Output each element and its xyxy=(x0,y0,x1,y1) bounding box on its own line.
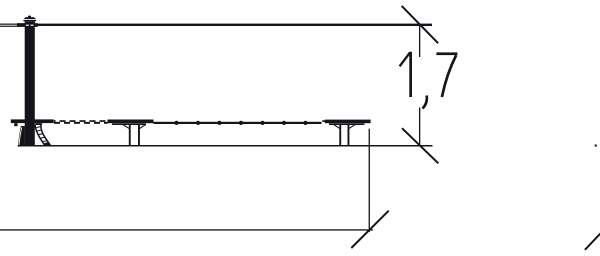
post cap rim xyxy=(23,20,36,21)
post collar xyxy=(26,21,36,23)
post cap dome xyxy=(24,17,36,19)
deck dashed double row between planks 1 and 2 xyxy=(54,120,108,124)
handrail clamp at post xyxy=(17,23,38,27)
handrail double line left of post xyxy=(0,24,18,27)
dimension vertical line upper segment xyxy=(419,24,420,58)
deck dotted surface line xyxy=(154,122,322,124)
dimension vertical line lower segment xyxy=(419,108,420,147)
pedestal connector under plank1 xyxy=(35,123,42,125)
dimension text 1,7 : digit 1 xyxy=(400,52,412,97)
plank1 left small foot xyxy=(14,123,17,126)
pedestal right leg foot xyxy=(44,142,50,145)
dimension tick top xyxy=(402,6,438,43)
dimension tick middle xyxy=(402,128,438,163)
bracket 3 braces xyxy=(333,124,355,128)
cap separator white line xyxy=(25,18,35,21)
dimension text comma xyxy=(423,96,427,109)
bracket 2 braces xyxy=(123,124,146,128)
bracket 3 horizontal xyxy=(329,123,365,125)
post P1 xyxy=(25,22,35,146)
bracket 2 left leg xyxy=(129,125,131,146)
deck plank bar 1 xyxy=(11,119,54,123)
bottom-right partial tick xyxy=(585,232,600,250)
bracket 2 horizontal xyxy=(112,123,146,125)
pedestal right leg curved band xyxy=(35,125,50,146)
bracket 3 right leg xyxy=(348,125,350,146)
screw dots on surface line xyxy=(174,121,307,125)
bracket 3 left leg xyxy=(339,125,341,146)
pedestal left leg white stripe xyxy=(19,127,22,145)
ground line xyxy=(18,145,433,147)
post cap knob xyxy=(28,15,31,17)
deck plank bar 2 xyxy=(108,120,154,124)
dimension text digit 7 xyxy=(436,52,457,97)
small dot right xyxy=(595,145,597,147)
pedestal right leg hatch marks xyxy=(36,127,47,142)
bottom extension vertical line xyxy=(369,129,370,232)
bracket 2 right leg xyxy=(138,125,140,146)
bottom dimension line xyxy=(0,229,373,230)
dimension tick bottom xyxy=(351,211,388,248)
handrail top rail xyxy=(37,24,432,26)
deck plank bar 3 xyxy=(322,120,326,122)
pedestal left leg xyxy=(18,126,25,146)
